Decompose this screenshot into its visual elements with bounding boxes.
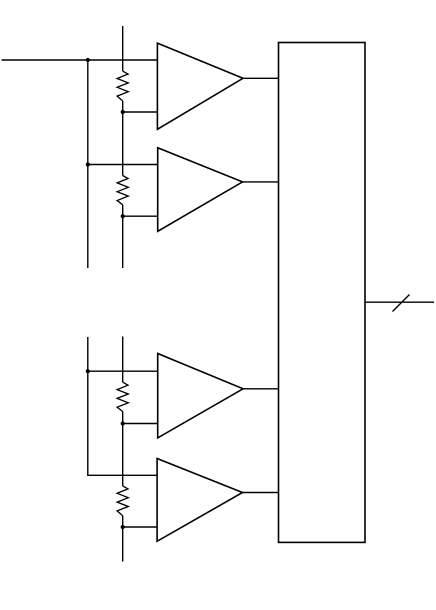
- wire amp2 bottom input: [123, 215, 158, 217]
- bus width slash: [393, 295, 410, 312]
- op-amp U1: [157, 43, 243, 129]
- resistor R1: [117, 71, 128, 101]
- resistor R4: [117, 486, 128, 516]
- wire U4 output: [243, 492, 279, 494]
- node R4 bottom junction: [121, 525, 125, 529]
- wire amp3 top input: [88, 370, 158, 372]
- wire resistor column lower top stub: [122, 337, 124, 383]
- wire resistor column upper top stub: [122, 26, 124, 71]
- node R2 bottom junction: [121, 214, 125, 218]
- node R3 bottom junction: [121, 421, 125, 425]
- wire amp4 bottom input: [123, 526, 158, 528]
- wire amp3 bottom input: [123, 423, 158, 425]
- wire amp1 inverting input: [123, 111, 158, 113]
- wire output bus: [365, 301, 434, 303]
- wire U3 output: [243, 388, 278, 390]
- wire U2 output: [243, 181, 279, 183]
- wire R1 bottom lead: [122, 101, 124, 176]
- node R1 bottom junction: [121, 110, 125, 114]
- wire U1 output: [243, 77, 279, 79]
- node amp3 input junction: [86, 369, 90, 373]
- node amp2 input junction: [86, 162, 90, 166]
- resistor R3: [117, 382, 128, 411]
- wire R4 bottom lead: [122, 516, 124, 562]
- node junction input/left column upper: [86, 58, 90, 62]
- resistor R2: [117, 176, 128, 205]
- op-amp U4: [157, 459, 242, 542]
- wire amp2 top input: [88, 164, 158, 166]
- wire left vertical lower with corner to amp4: [88, 337, 158, 475]
- wire R3 bottom lead: [122, 412, 124, 486]
- wire input horizontal top: [2, 59, 158, 61]
- block U5 multiplexer: [279, 43, 366, 543]
- op-amp U2: [158, 148, 243, 232]
- wire left vertical upper: [87, 60, 89, 268]
- op-amp U3: [158, 354, 243, 438]
- wire R2 bottom lead: [122, 205, 124, 268]
